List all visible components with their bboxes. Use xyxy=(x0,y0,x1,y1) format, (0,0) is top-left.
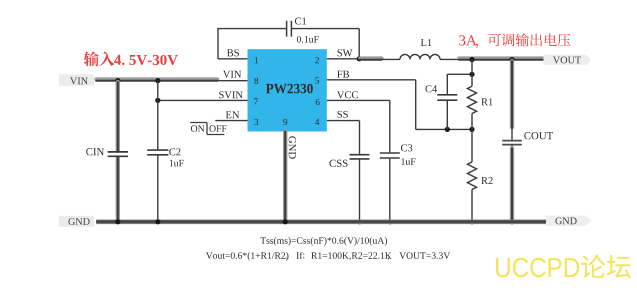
label pin VCC xyxy=(337,91,358,98)
wire FB pin xyxy=(327,80,416,130)
label pin SS xyxy=(338,111,348,118)
resistor R2 xyxy=(467,162,492,222)
wire IC GND drop (thick) xyxy=(283,132,287,221)
wire FB feedback node xyxy=(416,128,472,130)
pin 6 xyxy=(316,99,320,105)
node C2/GND junction xyxy=(155,219,160,224)
capacitor CSS xyxy=(329,155,369,222)
node C3/GND junction xyxy=(387,219,392,224)
pin 3 xyxy=(254,119,258,125)
wire C2/SVIN branch xyxy=(157,80,159,222)
formula Tss xyxy=(260,237,387,246)
label GND pin (rotated) xyxy=(289,136,296,159)
node VIN/SVIN junction xyxy=(155,78,160,83)
wire CIN branch (thick) xyxy=(116,82,120,221)
port tag VOUT xyxy=(544,55,592,65)
node R2/GND junction xyxy=(469,219,474,224)
wire SVIN xyxy=(158,99,248,101)
wire VIN bus (thick) xyxy=(96,79,247,81)
wire BS top loop left xyxy=(217,29,286,59)
label pin BS xyxy=(227,49,239,56)
node C4 top junction xyxy=(469,72,474,77)
wire R1 branch xyxy=(471,59,473,86)
wire VCC pin xyxy=(327,100,390,152)
node COUT/GND junction xyxy=(509,219,514,224)
node C4 bottom junction xyxy=(445,127,450,132)
wire C1 to SW node xyxy=(292,29,359,59)
node CSS/GND junction xyxy=(357,219,362,224)
capacitor C3 (1uF) xyxy=(380,144,416,221)
node R1/R2 feedback junction xyxy=(469,127,474,132)
formula Vout xyxy=(206,252,450,261)
annotation output voltage (red) xyxy=(459,33,570,48)
node IC-GND/GND junction xyxy=(283,219,288,224)
node SVIN junction xyxy=(155,98,160,103)
resistor R1 xyxy=(467,86,492,129)
annotation input voltage (red) xyxy=(84,52,178,67)
wire SS pin xyxy=(327,121,360,154)
pin 2 xyxy=(315,57,319,63)
label pin EN xyxy=(226,111,239,118)
label pin VIN xyxy=(223,71,241,78)
wire L1 to VOUT (thick) xyxy=(440,58,547,60)
wire EN pin xyxy=(215,120,247,122)
pin 7 xyxy=(254,98,258,104)
label pin FB xyxy=(337,71,349,78)
wire C4 top link xyxy=(447,74,472,94)
node VOUT/R1 junction xyxy=(469,57,474,62)
node SW/C1 junction xyxy=(357,56,362,61)
port tag GND left xyxy=(59,216,94,227)
wire GND rail (thick) xyxy=(96,220,548,225)
IC U1 PW2330 xyxy=(248,49,327,131)
switch ON/OFF annotation xyxy=(190,123,226,135)
capacitor C4 xyxy=(425,85,457,129)
wire COUT branch (thick) xyxy=(510,61,514,221)
pin 9 xyxy=(283,119,287,125)
pin 5 xyxy=(315,77,319,83)
capacitor COUT xyxy=(502,132,553,145)
label pin SVIN xyxy=(219,91,243,98)
inductor L1 xyxy=(400,39,440,59)
port tag GND right xyxy=(546,216,591,226)
wire SW pin xyxy=(327,58,360,60)
watermark UCCPD logo xyxy=(496,255,631,279)
node CIN/GND junction xyxy=(115,219,120,224)
port tag VIN xyxy=(59,74,94,86)
node VIN/CIN junction xyxy=(115,78,120,83)
capacitor C2 (1uF) xyxy=(147,148,183,166)
pin 1 xyxy=(255,57,258,63)
capacitor CIN xyxy=(86,148,128,156)
wire SW thick segment xyxy=(360,58,400,60)
wire R2 branch xyxy=(471,129,473,162)
node VOUT/COUT junction xyxy=(509,57,514,62)
pin 4 xyxy=(315,119,319,125)
label pin SW xyxy=(338,49,353,56)
wire BS pin xyxy=(218,58,248,60)
pin 8 xyxy=(254,78,258,84)
capacitor C1 (0.1uF) xyxy=(287,18,319,43)
